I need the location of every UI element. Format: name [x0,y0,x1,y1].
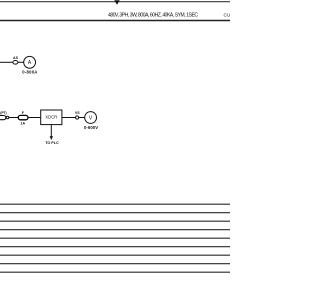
svg-text:VS: VS [75,111,80,115]
svg-text:(PT): (PT) [0,111,6,115]
svg-text:480V, 3PH, 3W, 800A, 60HZ, 40K: 480V, 3PH, 3W, 800A, 60HZ, 40KA, SYM, 1S… [108,12,198,18]
svg-text:F: F [22,111,25,115]
svg-text:1A: 1A [20,121,25,125]
svg-text:TO PLC: TO PLC [45,141,59,145]
svg-text:0-800A: 0-800A [22,70,37,75]
svg-text:AS: AS [13,56,19,60]
svg-text:0-600V: 0-600V [84,125,98,130]
svg-text:CU: CU [224,13,231,18]
svg-text:XDCR: XDCR [45,115,57,120]
